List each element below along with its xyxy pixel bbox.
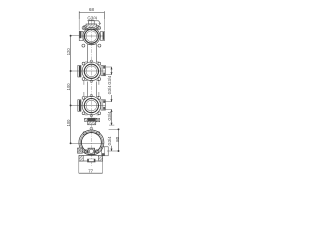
crosshair circle 1 — [79, 35, 104, 37]
valve circle 2 outer — [82, 62, 101, 81]
body shoulder below circle1 — [88, 43, 97, 45]
valve circle 4 mid ring — [80, 131, 102, 153]
dim 68 right extension line — [103, 19, 105, 31]
centerline vertical axis — [91, 20, 93, 167]
shoulder bottom-left circle 3 — [85, 114, 88, 116]
left tab circle 2 — [78, 65, 81, 77]
body column left edge circle2-circle3 — [87, 82, 89, 97]
screw circle1 top-left — [82, 26, 85, 29]
screw circle2 top-right — [98, 62, 101, 65]
svg-text:G3/4: G3/4 — [107, 85, 112, 95]
connector lower collar — [88, 121, 96, 125]
screw circle3 bottom-left — [82, 112, 85, 115]
label G3/4 top leader — [99, 21, 101, 24]
connector left wing — [84, 118, 87, 121]
top bump circle 2 — [90, 60, 93, 63]
svg-text:G3/4: G3/4 — [87, 15, 97, 20]
shoulder bottom-right circle 3 — [96, 114, 99, 116]
screw circle4 top-left — [83, 132, 86, 135]
valve circle 4 outer — [79, 130, 104, 155]
port3 lower extension line — [109, 124, 114, 126]
left dim extension circle1 — [71, 35, 80, 37]
left dim dot circle4 — [70, 142, 72, 144]
body stub right above circle3 — [98, 92, 100, 96]
connector nut dark band between circle3 and circle4 — [88, 118, 96, 121]
top bump circle 4 — [90, 127, 93, 130]
port3 top extension line — [105, 101, 112, 103]
screw circle2 top-left — [82, 62, 85, 65]
port2 bore arrow down — [111, 72, 113, 74]
svg-text:77: 77 — [88, 168, 93, 173]
left clamp circle 4 — [78, 148, 83, 153]
base plate left hatched cell — [79, 156, 83, 162]
left tab circle 1 — [79, 31, 83, 40]
top bump circle 3 — [90, 94, 93, 97]
screw circle1 top-right — [98, 26, 101, 29]
svg-text:G3/4: G3/4 — [107, 111, 112, 121]
screw circle3 bottom-right — [98, 112, 101, 115]
right tab circle 2 — [101, 66, 106, 76]
valve circle 2 thick ring — [84, 64, 98, 78]
connector right wing diagonal — [96, 118, 99, 122]
shoulder bottom-right circle 2 — [96, 80, 99, 82]
valve circle 1 inner — [86, 31, 97, 42]
top port stem — [89, 21, 95, 25]
top port nut — [86, 24, 97, 29]
screw circle2 bottom-left — [82, 78, 85, 81]
dim 77 bottom dimension line — [79, 172, 103, 174]
screw circle4 top-right — [97, 132, 100, 135]
crosshair circle 3 — [78, 104, 106, 106]
dim 68 right tick — [103, 11, 105, 19]
right tab circle 1 — [101, 31, 105, 40]
port2 bore arrow up — [111, 67, 113, 69]
left dim extension circle3 — [71, 104, 78, 106]
dim 68 top dimension line — [79, 12, 104, 14]
screw circle4 bottom-left — [84, 150, 87, 153]
svg-text:G3/4: G3/4 — [107, 75, 112, 85]
screw circle3 top-left — [82, 97, 85, 100]
port3 lower arrow up — [111, 110, 113, 112]
top nut left wing — [84, 26, 86, 30]
bottom bump circle 2 — [90, 80, 93, 83]
shoulder bottom-left circle 2 — [85, 80, 88, 82]
crosshair circle 2 — [78, 70, 106, 72]
svg-text:100: 100 — [66, 119, 71, 127]
connector right wing — [96, 118, 99, 122]
left dim dot circle2 — [70, 70, 72, 72]
port3 upper leader arrow — [111, 99, 113, 101]
shoulder top-right circle 3 — [96, 95, 99, 97]
valve circle 3 thick ring — [84, 99, 98, 113]
crosshair circle 4 — [79, 142, 104, 144]
svg-text:68: 68 — [89, 7, 94, 12]
svg-text:G3/4: G3/4 — [107, 136, 112, 146]
base stub bracket — [87, 159, 95, 163]
dim 80 top dot — [118, 128, 120, 130]
valve circle 1 outer — [83, 28, 100, 45]
port3 upper leader line — [111, 95, 113, 102]
top nut right wing — [97, 26, 99, 30]
port2 bore dim line — [111, 67, 113, 75]
dim 80 top extension line — [109, 128, 119, 130]
screw circle1 bottom-left — [82, 44, 85, 47]
valve circle 4 thick ring — [81, 133, 101, 153]
valve circle 3 outer — [82, 96, 101, 115]
base plate right hatched cell — [98, 156, 102, 162]
port2 bore top extension line — [106, 66, 112, 68]
right outlet fitting circle 4 — [102, 147, 109, 156]
dim 77 left extension line — [78, 161, 80, 173]
body stub left below circle2 — [83, 81, 85, 85]
svg-text:80: 80 — [115, 136, 120, 141]
dim 68 left extension line — [78, 19, 80, 31]
dim 80 dimension line — [118, 129, 120, 151]
svg-text:120: 120 — [66, 48, 71, 56]
port2 bore bottom extension line — [106, 74, 112, 76]
port3 lower arrow down — [111, 123, 113, 125]
body column right edge circle1-circle2 — [95, 44, 97, 63]
port4 leader line — [111, 146, 113, 151]
dim 68 left tick — [78, 11, 80, 19]
valve circle 3 inner — [86, 100, 97, 111]
screw circle2 bottom-right — [98, 78, 101, 81]
port3 lower dim line — [111, 110, 113, 126]
port4 extension line y151 — [107, 150, 119, 152]
label G3/4 top leader arrowhead — [99, 23, 101, 25]
dim 80 bottom dot — [118, 150, 120, 152]
body column right edge circle2-circle3 — [95, 82, 97, 97]
body stub right below circle2 — [98, 81, 100, 85]
screw circle3 top-right — [98, 97, 101, 100]
left dim extension circle4 — [71, 142, 79, 144]
shoulder top-right circle 2 — [96, 61, 99, 63]
dim 77 right extension line — [102, 161, 104, 173]
right tab circle 3 — [101, 100, 106, 110]
base plate left divider — [82, 156, 84, 162]
port4 leader arrow — [111, 149, 113, 151]
left vertical dimension line — [70, 36, 72, 144]
cartridge nut inside circle4 bottom — [88, 148, 95, 154]
svg-text:100: 100 — [66, 83, 71, 91]
left dim dot circle1 — [70, 35, 72, 37]
left tab circle 3 — [78, 100, 81, 112]
body stub left above circle3 — [83, 92, 85, 96]
screw circle1 bottom-right — [98, 44, 101, 47]
body column left edge circle1-circle2 — [87, 44, 89, 63]
screw circle4 bottom-right — [95, 150, 98, 153]
shoulder top-left circle 3 — [85, 95, 88, 97]
shoulder top-left circle 2 — [85, 61, 88, 63]
base plate right divider — [97, 156, 99, 162]
valve circle 2 inner — [86, 66, 97, 77]
base plate — [79, 156, 103, 162]
bottom bump circle 3 — [90, 114, 93, 117]
left dim dot circle3 — [70, 104, 72, 106]
label G3/4 top underline — [87, 20, 98, 22]
port3 bore bottom extension line — [106, 109, 112, 111]
valve circle 1 thick ring — [84, 29, 98, 43]
left dim extension circle2 — [71, 70, 78, 72]
